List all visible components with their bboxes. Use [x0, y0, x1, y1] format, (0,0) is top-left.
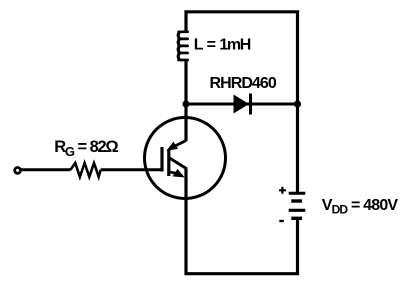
battery VDD plates [289, 193, 306, 218]
diode RHRD460 symbol [234, 94, 251, 115]
terminal input [15, 168, 21, 174]
transistor Q1 channel bar [167, 150, 170, 177]
resistor RG zigzag [71, 163, 101, 177]
transistor Q1 source arrow stem [169, 172, 177, 174]
battery plus sign [279, 187, 286, 194]
transistor Q1 circle [145, 118, 226, 199]
wire gate [21, 168, 162, 171]
svg-text:RHRD460: RHRD460 [210, 75, 277, 92]
svg-text:RG = 82Ω: RG = 82Ω [54, 138, 118, 159]
svg-text:L = 1mH: L = 1mH [194, 37, 251, 54]
transistor Q1 source diagonal [169, 158, 187, 170]
node drain junction [182, 100, 189, 107]
wire top rail [186, 12, 298, 194]
wire source to bottom [186, 169, 298, 274]
wire diode net [186, 103, 298, 106]
node right junction [294, 100, 301, 107]
inductor L1 [178, 32, 187, 60]
transistor Q1 drain diagonal [175, 141, 187, 147]
wire left rail (inductor to drain) [184, 60, 187, 141]
battery minus sign [279, 220, 284, 222]
transistor Q1 drain arrow [166, 142, 178, 151]
transistor Q1 source arrow [173, 169, 185, 178]
transistor Q1 gate bar [160, 147, 163, 172]
